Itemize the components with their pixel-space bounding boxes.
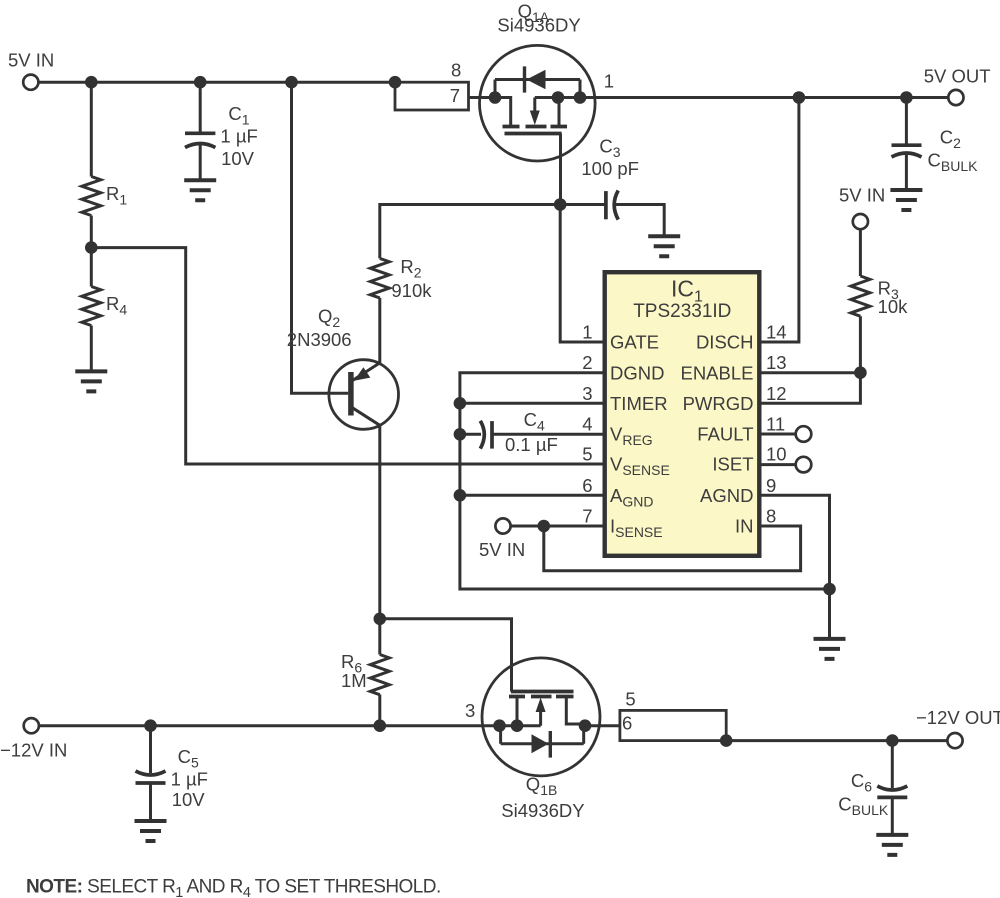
Q1B gate bar (511, 690, 574, 694)
wire R3 top lead (859, 229, 862, 276)
box Q1B pins 5/6 (paralleled drain pins) (620, 689, 726, 741)
svg-text:−12V IN: −12V IN (0, 740, 67, 761)
wire pin1 GATE (560, 205, 605, 343)
wire C6 top lead (891, 741, 894, 788)
svg-text:7: 7 (582, 506, 592, 527)
wire pin3 TIMER (460, 402, 605, 405)
wire R4 bottom lead (90, 326, 93, 372)
node ISET open terminal (796, 457, 812, 473)
node 5V IN terminal at ISENSE (479, 518, 525, 560)
capacitor C2 CBULK (892, 127, 979, 174)
node junction AGND tap (454, 489, 467, 502)
svg-text:6: 6 (582, 475, 592, 496)
node junction C1 tap (194, 76, 207, 89)
svg-text:5: 5 (625, 689, 635, 710)
Q1B body arrow (536, 698, 546, 713)
wire C1 top lead (199, 82, 202, 133)
wire VSENSE from R1/R4 divider to pin5 (91, 248, 604, 464)
Q1A body arrow (530, 111, 540, 126)
svg-text:10V: 10V (172, 789, 206, 810)
svg-text:8: 8 (766, 506, 776, 527)
Q1A gate bar (505, 132, 562, 136)
node junction ISENSE/IN tie (538, 520, 551, 533)
svg-text:1 µF: 1 µF (171, 768, 208, 789)
ground below C1 (184, 180, 216, 200)
svg-text:13: 13 (766, 352, 787, 373)
wire pin6 AGND tap (460, 494, 605, 497)
svg-text:10k: 10k (878, 296, 909, 317)
transistor Q1B Si4936DY (p-MOSFET with body diode) (465, 658, 620, 821)
svg-text:9: 9 (766, 475, 776, 496)
Q1B body diode bar (549, 731, 552, 758)
wire C2 to ground (905, 153, 908, 190)
svg-text:5V IN: 5V IN (8, 50, 54, 71)
node junction C3/gate (4-way) (554, 198, 567, 211)
node junction at pin-8 box (389, 76, 402, 89)
svg-text:14: 14 (766, 322, 787, 343)
wire ISENSE to pin8 IN loop (544, 526, 801, 571)
wire Q1A source segment (495, 80, 595, 127)
node junction C6 tap (886, 734, 899, 747)
wire Q2 emitter to R2 (378, 298, 381, 363)
wire -12V input rail (39, 724, 495, 727)
svg-text:6: 6 (622, 713, 632, 734)
svg-text:Si4936DY: Si4936DY (497, 15, 580, 36)
node junction C4 tap (454, 428, 467, 441)
node junction box output (720, 734, 733, 747)
wire pin12 PWRGD (759, 373, 860, 404)
svg-text:10: 10 (766, 444, 787, 465)
transistor Q2 2N3906 (287, 306, 399, 430)
svg-text:1: 1 (604, 71, 614, 92)
ground below R4 (75, 371, 107, 391)
box Q1A pins 8/7 (paralleled source pins) (395, 59, 469, 110)
ground below AGND (814, 639, 846, 659)
node junction DISCH tap (793, 91, 806, 104)
svg-text:TPS2331ID: TPS2331ID (633, 301, 731, 322)
svg-text:3: 3 (465, 700, 475, 721)
wire C6 to ground (891, 797, 894, 835)
wire R2 top lead to gate net (380, 205, 560, 259)
svg-text:ENABLE: ENABLE (680, 362, 753, 383)
capacitor C6 CBULK (838, 770, 907, 818)
wire box to Q1A (469, 96, 496, 99)
wire Q2 collector down to R6 node (378, 425, 381, 619)
wire R3 to ENABLE (759, 316, 860, 373)
svg-text:PWRGD: PWRGD (683, 393, 754, 414)
svg-text:2: 2 (582, 352, 592, 373)
capacitor C3 100pF (581, 136, 639, 220)
resistor R4 (82, 287, 128, 326)
wire Q1B internal segments (500, 697, 620, 744)
ground below C3 (648, 236, 680, 256)
svg-text:1M: 1M (341, 670, 367, 691)
svg-text:4: 4 (582, 414, 592, 435)
Q1A body diode bar (523, 66, 526, 92)
node FAULT open terminal (796, 426, 812, 442)
wire C4 left lead (460, 433, 481, 436)
svg-text:AGND: AGND (700, 485, 753, 506)
node junction C2 tap (900, 91, 913, 104)
svg-text:TIMER: TIMER (610, 393, 668, 414)
Q1B channel dashes (509, 695, 574, 699)
wire R1 top lead (90, 82, 93, 176)
node junction R6 top / Q1B gate (374, 613, 387, 626)
op-amp IC1 TPS2331ID (hot-swap controller) (605, 272, 760, 556)
wire pin9 AGND down to ground (759, 495, 829, 639)
node 5V IN terminal above R3 (839, 185, 885, 230)
svg-text:ISET: ISET (712, 454, 753, 475)
wire pin14 DISCH up to 5V OUT rail (759, 98, 799, 343)
ground below C5 (135, 821, 167, 841)
node -12V OUT terminal (916, 707, 1000, 748)
node junction R1 tap (85, 76, 98, 89)
svg-text:11: 11 (766, 414, 785, 435)
wire 5V output rail (595, 96, 949, 99)
Q1B pin dots (493, 719, 506, 732)
node junction R1/R4 (threshold divider) (85, 241, 98, 254)
resistor R2 910k (370, 256, 432, 301)
resistor R3 10k (851, 276, 908, 317)
svg-text:DISCH: DISCH (696, 332, 754, 353)
node -12V IN terminal (0, 718, 67, 760)
svg-text:1: 1 (582, 322, 592, 343)
wire R1-R4 link (90, 216, 93, 287)
svg-text:100 pF: 100 pF (581, 158, 639, 179)
svg-text:5V IN: 5V IN (479, 539, 525, 560)
svg-text:7: 7 (450, 85, 460, 106)
wire pin7 ISENSE (511, 525, 605, 528)
node junction AGND/DGND ground tie (823, 583, 836, 596)
capacitor C4 0.1uF (480, 409, 558, 455)
svg-text:FAULT: FAULT (697, 424, 753, 445)
wire Q1B gate run (380, 619, 512, 692)
node junction C5 tap (144, 719, 157, 732)
svg-text:1 µF: 1 µF (220, 125, 257, 146)
wire C1 to ground (199, 144, 202, 181)
svg-text:3: 3 (582, 383, 592, 404)
Q1A pin dots (489, 91, 502, 104)
ground below C6 (876, 835, 908, 855)
Q1A body diode triangle (527, 70, 546, 90)
svg-text:−12V OUT: −12V OUT (916, 707, 1000, 728)
node junction TIMER tap (454, 397, 467, 410)
svg-text:Si4936DY: Si4936DY (501, 800, 584, 821)
svg-text:GATE: GATE (610, 332, 659, 353)
resistor R1 (82, 177, 128, 216)
resistor R6 1M (341, 651, 389, 695)
capacitor C5 1uF 10V (136, 746, 208, 810)
svg-text:5: 5 (582, 444, 592, 465)
wire pin10 ISET (759, 463, 795, 466)
wire C3 lead (560, 203, 606, 206)
svg-text:NOTE: SELECT R1 AND R4 TO SET: NOTE: SELECT R1 AND R4 TO SET THRESHOLD. (26, 877, 441, 898)
wire pin4 VREG from C4 (492, 433, 605, 436)
svg-text:8: 8 (451, 59, 461, 80)
wire pin2 DGND to ground chain (460, 373, 830, 589)
Q1A channel dashes (503, 125, 568, 129)
svg-text:12: 12 (766, 383, 787, 404)
wire R6 leads (378, 619, 381, 726)
node 5V IN (top-left terminal) (8, 50, 54, 90)
node junction ENABLE/R3/PWRGD (854, 366, 867, 379)
wire C3 to ground (615, 205, 665, 237)
svg-text:5V IN: 5V IN (839, 185, 885, 206)
wire 5V input rail (38, 81, 395, 84)
wire Q1A gate lead down to C3 node (559, 134, 562, 205)
node junction R6 bottom (374, 719, 387, 732)
svg-text:IN: IN (735, 516, 754, 537)
ground below C2 (890, 190, 922, 210)
wire pin11 FAULT (759, 433, 795, 436)
svg-text:5V OUT: 5V OUT (924, 66, 991, 87)
wire Q2 base drop from 5V rail (292, 82, 349, 393)
capacitor C1 1uF 10V (185, 103, 258, 169)
wire C5 to ground (149, 783, 152, 821)
node 5V OUT terminal (924, 66, 991, 105)
node junction Q2-base tap (285, 76, 298, 89)
svg-text:2N3906: 2N3906 (287, 329, 352, 350)
svg-text:DGND: DGND (610, 362, 664, 383)
transistor Q1A Si4936DY (p-MOSFET with body diode) (480, 1, 615, 162)
svg-text:910k: 910k (391, 280, 432, 301)
svg-text:10V: 10V (221, 148, 255, 169)
svg-text:0.1 µF: 0.1 µF (505, 434, 558, 455)
wire C5 top lead (149, 726, 152, 773)
wire C2 top lead (905, 98, 908, 146)
wire -12V output rail (726, 739, 947, 742)
Q1B body diode triangle (532, 734, 549, 753)
